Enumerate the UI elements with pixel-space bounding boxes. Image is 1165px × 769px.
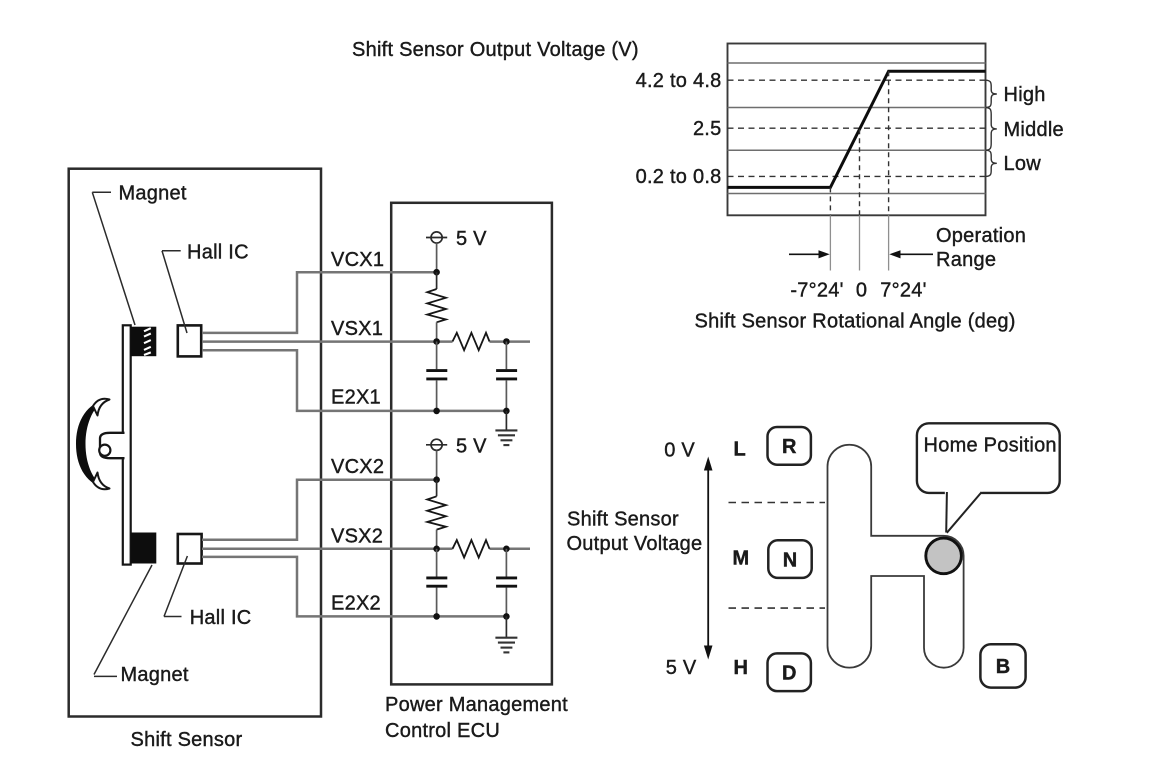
svg-text:N: N	[783, 549, 797, 571]
dashed separator upper	[729, 502, 826, 504]
ground (channel 1)	[495, 411, 517, 445]
button B	[980, 644, 1025, 687]
dashed level 0.2 to 0.8	[728, 175, 986, 177]
svg-text:7°24': 7°24'	[880, 280, 926, 302]
svg-text:VSX2: VSX2	[331, 526, 383, 548]
svg-text:-7°24': -7°24'	[790, 280, 843, 302]
svg-text:0: 0	[856, 280, 867, 302]
magnet M2 (solid)	[131, 533, 157, 564]
operation range arrow right	[889, 250, 933, 258]
svg-text:Control ECU: Control ECU	[385, 720, 500, 742]
node VSX1 junction	[433, 338, 440, 345]
label Magnet (upper) with leader	[92, 183, 187, 326]
resistor R2 (series, horizontal)	[453, 333, 490, 350]
node VCX2 junction	[433, 476, 440, 483]
dashed level 2.5	[728, 127, 986, 129]
svg-text:VSX1: VSX1	[331, 318, 383, 340]
shift gate outline	[827, 445, 963, 668]
wire E2X2	[202, 557, 506, 617]
node VSX2 junction	[433, 546, 440, 553]
shaft cylinder	[99, 433, 124, 458]
dashed separator lower	[729, 607, 826, 609]
svg-text:Magnet: Magnet	[121, 664, 189, 686]
vertical extension lines below frame	[830, 215, 888, 270]
vertical dashed 7deg24	[888, 71, 890, 215]
svg-text:Shift Sensor Rotational Angle: Shift Sensor Rotational Angle (deg)	[695, 311, 1016, 333]
resistor R4 (series, horizontal)	[453, 540, 490, 557]
svg-text:L: L	[734, 438, 746, 460]
graph gridline 1	[728, 62, 986, 64]
svg-text:High: High	[1004, 84, 1046, 106]
node E2X2 junction left	[433, 613, 440, 620]
button N	[768, 540, 811, 578]
label Magnet (lower) with leader	[94, 565, 189, 686]
svg-text:E2X1: E2X1	[331, 387, 381, 409]
svg-text:5 V: 5 V	[456, 228, 487, 250]
svg-text:5 V: 5 V	[456, 435, 487, 457]
vertical dashed -7deg24	[829, 187, 831, 215]
svg-text:B: B	[996, 656, 1010, 678]
5V supply symbol (channel 1)	[426, 228, 487, 250]
ECU box	[391, 203, 552, 685]
svg-text:R: R	[782, 436, 797, 458]
label Power Management Control ECU	[385, 694, 568, 742]
svg-text:E2X2: E2X2	[331, 593, 381, 615]
svg-text:Power Management: Power Management	[385, 694, 568, 716]
svg-text:5 V: 5 V	[666, 657, 697, 679]
node E2X1 junction right	[503, 408, 510, 415]
svg-text:Shift Sensor Output Voltage (V: Shift Sensor Output Voltage (V)	[352, 39, 639, 61]
resistor R1 (pull-up, vertical)	[427, 272, 446, 341]
vertical dashed 0	[859, 129, 861, 215]
wire VCX2	[202, 480, 437, 540]
svg-text:VCX1: VCX1	[331, 249, 384, 271]
svg-text:Shift Sensor: Shift Sensor	[131, 729, 243, 751]
brace Low	[986, 150, 997, 176]
wire VCX1	[202, 272, 437, 333]
magnet M1 (hatched)	[131, 327, 157, 357]
dashed level 4.2 to 4.8	[728, 79, 986, 81]
rotation arrow arc	[76, 399, 110, 489]
svg-text:Middle: Middle	[1004, 119, 1064, 141]
svg-text:0.2 to 0.8: 0.2 to 0.8	[636, 166, 722, 188]
rotor plate	[123, 325, 131, 564]
svg-text:4.2 to 4.8: 4.2 to 4.8	[636, 70, 722, 92]
button D	[768, 653, 811, 691]
capacitor C3 (left)	[426, 549, 447, 617]
callout Home Position	[917, 423, 1060, 533]
svg-text:Operation: Operation	[936, 225, 1026, 247]
capacitor C2 (right)	[496, 342, 517, 411]
label Hall IC (upper) with leader	[162, 241, 249, 333]
hall IC U1 (upper)	[178, 325, 201, 356]
svg-text:M: M	[733, 548, 750, 570]
node VSX1 right junction	[503, 338, 510, 345]
brace High	[986, 80, 997, 107]
capacitor C4 (right)	[496, 549, 517, 617]
node VSX2 right junction	[503, 546, 510, 553]
svg-text:D: D	[782, 663, 796, 685]
svg-text:0 V: 0 V	[664, 440, 695, 462]
svg-text:Shift Sensor: Shift Sensor	[567, 508, 679, 530]
graph gridline 4	[728, 193, 986, 195]
voltage double arrow	[704, 457, 713, 660]
wire 5V link (channel 1)	[436, 243, 438, 272]
svg-text:VCX2: VCX2	[331, 456, 384, 478]
svg-text:Hall IC: Hall IC	[190, 607, 252, 629]
label Shift Sensor Output Voltage (mid)	[567, 508, 703, 555]
svg-text:Output Voltage: Output Voltage	[567, 533, 703, 555]
node VCX1 junction	[433, 269, 440, 276]
node E2X1 junction left	[433, 408, 440, 415]
resistor R3 (pull-up, vertical)	[427, 480, 446, 549]
operation range arrow left	[789, 250, 830, 258]
wire 5V link (channel 2)	[436, 450, 438, 479]
graph frame	[728, 44, 986, 216]
home position knob	[926, 538, 962, 574]
svg-text:Home Position: Home Position	[924, 435, 1057, 457]
label Operation Range	[936, 225, 1026, 271]
button R	[768, 427, 811, 465]
wire VSX2	[202, 547, 530, 550]
output voltage curve	[728, 71, 986, 187]
svg-text:Low: Low	[1004, 153, 1042, 175]
wire VSX1	[202, 340, 530, 343]
shift sensor enclosure box	[69, 169, 321, 717]
capacitor C1 (left)	[426, 342, 447, 411]
graph gridline 3	[728, 149, 986, 151]
brace Middle	[986, 108, 997, 151]
ground (channel 2)	[495, 616, 517, 652]
svg-text:H: H	[734, 657, 748, 679]
svg-text:Magnet: Magnet	[119, 183, 187, 205]
label Hall IC (lower) with leader	[164, 556, 251, 629]
graph gridline 2	[728, 107, 986, 109]
svg-text:2.5: 2.5	[693, 118, 722, 140]
wire E2X1	[202, 350, 506, 411]
svg-text:Hall IC: Hall IC	[187, 241, 249, 263]
5V supply symbol (channel 2)	[426, 435, 487, 457]
svg-text:Range: Range	[936, 249, 996, 271]
hall IC U2 (lower)	[178, 534, 202, 564]
node E2X2 junction right	[503, 613, 510, 620]
